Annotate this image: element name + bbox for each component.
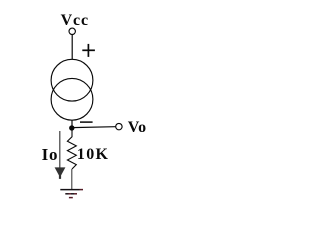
label 10K <box>77 147 109 163</box>
label Vo <box>128 120 147 136</box>
current arrow Io shaft <box>59 131 61 168</box>
wire Vcc terminal to current source <box>71 35 73 60</box>
wire node to Vo terminal <box>72 126 116 129</box>
minus sign <box>80 121 93 123</box>
wire current source to node <box>71 120 73 128</box>
current arrow Io head <box>55 167 66 176</box>
resistor R1 zigzag <box>67 128 76 169</box>
label Io <box>42 147 59 163</box>
label Vcc <box>61 13 89 29</box>
wire resistor to ground <box>71 169 73 190</box>
ground <box>60 190 83 198</box>
current source I1 (two overlapping circles) <box>51 59 93 120</box>
terminal Vcc <box>69 28 75 34</box>
plus sign <box>82 44 95 57</box>
terminal Vo <box>116 123 122 129</box>
node junction dot <box>69 125 74 130</box>
